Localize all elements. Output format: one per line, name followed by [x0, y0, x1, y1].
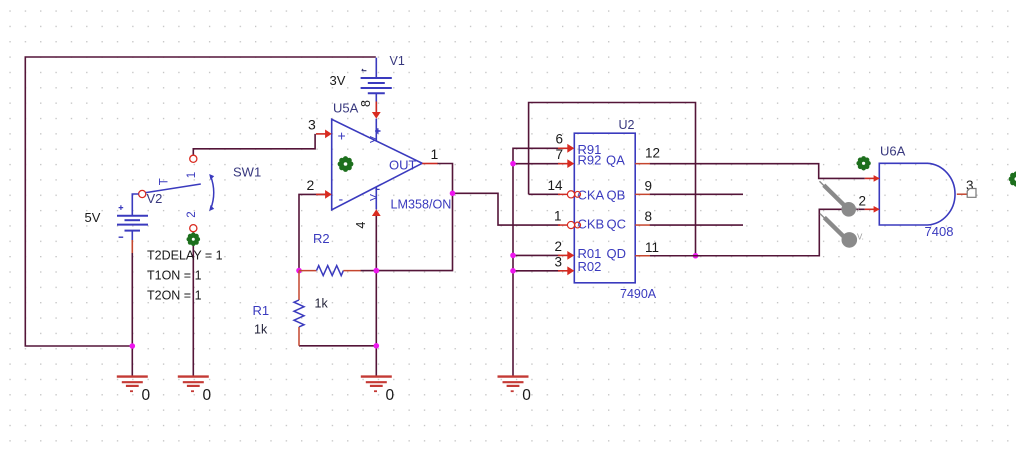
svg-text:T: T [159, 178, 171, 185]
wire op-amp pin3 to SW1 top terminal [193, 134, 315, 155]
pin 2 red arrow [316, 190, 332, 199]
ground 0 (V2) [117, 377, 151, 404]
svg-text:V.: V. [857, 233, 864, 242]
green marker at U6A pin1 [856, 156, 870, 170]
node junction dot V2-bottom [130, 343, 136, 349]
U2 pin 7 arrow [558, 159, 574, 168]
wire left bus down to ground [512, 164, 514, 376]
AND gate U6A [879, 163, 955, 225]
wire U2 R01 pin2 [513, 254, 560, 256]
svg-text:R92: R92 [578, 153, 602, 168]
wire feedback QD to CKA top loop [529, 103, 696, 256]
svg-text:U6A: U6A [880, 144, 906, 159]
svg-text:U2: U2 [619, 118, 635, 132]
svg-text:U5A: U5A [333, 101, 359, 116]
wire top-left loop from V1 to V2 ground node [25, 57, 376, 346]
svg-text:0: 0 [522, 387, 531, 404]
svg-text:2: 2 [554, 239, 562, 254]
svg-text:CKA: CKA [578, 187, 605, 202]
node junction dot feedback [450, 191, 456, 197]
svg-text:QB: QB [607, 187, 626, 202]
op-amp U5A V- pin with red arrow [368, 187, 381, 216]
wire CKA horizontal [529, 193, 560, 195]
battery V2 [117, 190, 148, 253]
node junction dot R1 bottom [374, 343, 380, 349]
svg-text:7408: 7408 [925, 224, 954, 239]
svg-text:V1: V1 [390, 54, 405, 68]
svg-text:3: 3 [308, 117, 316, 133]
svg-text:QC: QC [607, 217, 627, 232]
svg-text:CKB: CKB [578, 217, 605, 232]
U2 pin 8 lead [635, 224, 650, 226]
svg-text:0: 0 [142, 387, 151, 404]
U2 pin 14 clock symbol [558, 191, 580, 198]
node junction dot R2 left [296, 268, 302, 274]
resistor R1 (vertical) [294, 271, 304, 346]
U6A pin 2 arrow [865, 206, 880, 213]
wire feedback junction to U2 CKB pin 1 [453, 193, 561, 225]
svg-text:V2: V2 [147, 191, 163, 206]
svg-text:3V: 3V [330, 73, 346, 88]
wire feedback junction down to R2 right node [376, 193, 452, 270]
svg-text:+: + [338, 128, 346, 144]
green marker below SW1 [187, 233, 201, 247]
svg-text:2: 2 [186, 211, 198, 217]
ground 0 (U2) [498, 377, 532, 404]
U2 pin 9 lead [635, 193, 650, 195]
svg-text:1k: 1k [315, 297, 329, 311]
svg-text:7: 7 [555, 147, 563, 162]
wire V2 bottom to ground [131, 253, 133, 376]
U2 pin 6 arrow [558, 144, 574, 153]
svg-text:-: - [339, 191, 344, 207]
svg-text:11: 11 [645, 240, 659, 255]
svg-text:3: 3 [554, 254, 562, 269]
svg-text:2: 2 [307, 177, 315, 193]
svg-text:6: 6 [555, 132, 563, 147]
ground 0 (R1/op-amp) [361, 377, 395, 404]
svg-text:0: 0 [386, 387, 395, 404]
U2 pin 12 lead [635, 163, 650, 165]
svg-text:8: 8 [359, 100, 373, 107]
svg-text:1: 1 [431, 146, 439, 162]
ground 0 (SW1) [178, 377, 212, 404]
svg-text:1k: 1k [254, 323, 268, 337]
svg-text:T2DELAY = 1: T2DELAY = 1 [147, 249, 223, 263]
U6A pin 1 arrow [865, 175, 880, 182]
wire mid node down to R1 bottom node and ground [375, 271, 377, 376]
svg-text:5V: 5V [85, 210, 101, 225]
U6A output pin 3 lead [957, 193, 968, 195]
wire QD pin11 to U6A pin2 [650, 209, 865, 255]
wire op-amp V- pin down to mid node [375, 216, 377, 271]
svg-text:R1: R1 [253, 303, 270, 318]
off-page connector square [967, 189, 976, 198]
svg-text:8: 8 [645, 209, 653, 224]
svg-text:QA: QA [606, 153, 625, 168]
svg-text:OUT: OUT [389, 158, 417, 173]
svg-text:9: 9 [645, 179, 653, 194]
wire op-amp output to feedback junction [437, 164, 453, 194]
svg-text:T1ON = 1: T1ON = 1 [147, 269, 202, 283]
node junction dot R01 [510, 253, 516, 259]
IC U2 7490A box [574, 133, 635, 283]
wire QA pin12 to U6A pin1 [650, 164, 865, 179]
wire U2 pin6 loop [513, 148, 560, 163]
wire SW1 bottom terminal to ground [192, 232, 194, 376]
node junction dot R2 right / mid [374, 268, 380, 274]
svg-text:v.: v. [856, 205, 861, 214]
wire QB pin9 stub [650, 193, 744, 195]
resistor R2 (horizontal) [299, 266, 361, 276]
svg-text:V: V [368, 194, 380, 201]
probe marker 1 (gray) [820, 181, 862, 216]
wire U2 R02 pin3 [513, 270, 560, 272]
U2 pin 1 clock symbol [558, 221, 580, 228]
U2 pin 11 lead [635, 255, 650, 257]
svg-text:0: 0 [203, 387, 212, 404]
pin 1 output red lead [422, 163, 437, 165]
node junction dot QD feedback [693, 253, 699, 259]
probe marker 2 (gray) [820, 214, 864, 248]
pin 3 red arrow [316, 130, 332, 139]
U2 pin 3 arrow [558, 266, 574, 275]
switch SW1 [146, 155, 214, 232]
svg-text:4: 4 [354, 222, 368, 229]
svg-text:R2: R2 [313, 231, 330, 246]
svg-text:R02: R02 [578, 259, 602, 274]
svg-text:1: 1 [554, 209, 562, 224]
wire R1 bottom horizontal [299, 345, 376, 347]
svg-text:SW1: SW1 [233, 165, 261, 180]
battery V1 [361, 58, 392, 93]
svg-text:12: 12 [645, 146, 660, 161]
svg-text:LM358/ON: LM358/ON [391, 197, 452, 211]
svg-text:QD: QD [607, 246, 627, 261]
node junction dot pin7 [510, 161, 516, 167]
green marker at right edge [1009, 171, 1016, 186]
wire QC pin8 stub [650, 224, 744, 226]
green marker inside op-amp [338, 156, 354, 172]
svg-text:14: 14 [547, 178, 563, 193]
op-amp U5A V+ pin with red arrow [368, 93, 381, 143]
svg-text:1: 1 [186, 172, 198, 178]
svg-text:7490A: 7490A [620, 287, 657, 301]
op-amp U5A triangle [332, 119, 423, 210]
svg-text:T2ON = 1: T2ON = 1 [147, 289, 202, 303]
wire op-amp pin2 from R2 left node [299, 194, 332, 270]
U2 pin 2 arrow [558, 251, 574, 260]
node junction dot R02 [510, 268, 516, 274]
wire R2 right lead to mid node [361, 270, 377, 272]
wire U2 pin7 from node [513, 163, 560, 165]
